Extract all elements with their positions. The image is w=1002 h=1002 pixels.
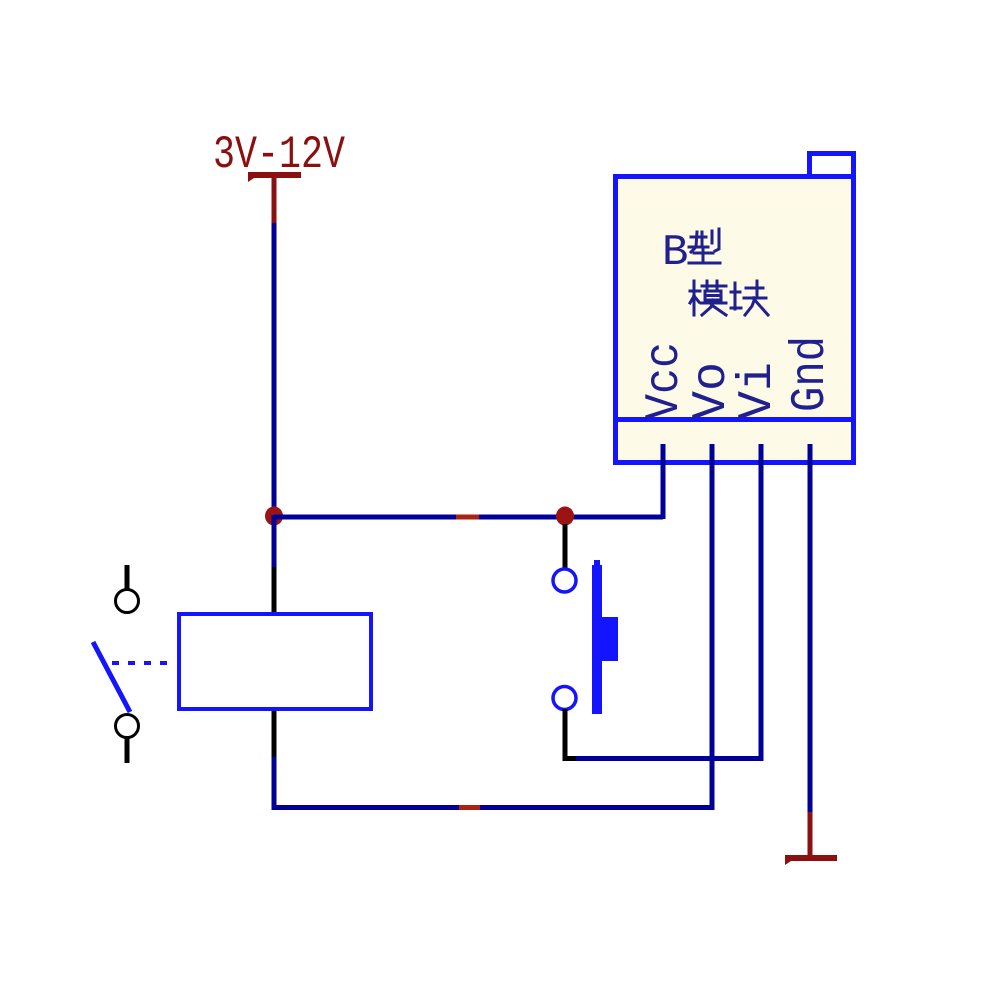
switch mechanical link dashed xyxy=(112,661,176,665)
wire pin Vi lead xyxy=(759,444,764,761)
module label glyph 块 xyxy=(731,281,768,315)
wire button bottom corner black xyxy=(563,756,577,761)
wire J1 to relay black part xyxy=(272,567,277,612)
push button plunger bar xyxy=(592,565,602,714)
switch top terminal circle xyxy=(116,590,139,613)
svg-text:Vi: Vi xyxy=(731,362,785,420)
wire power vertical navy xyxy=(272,223,277,509)
wire pin Vcc lead xyxy=(661,444,666,519)
node junction J1 xyxy=(265,507,283,526)
wire pin Gnd lead red xyxy=(808,812,813,856)
svg-text:Gnd: Gnd xyxy=(784,336,838,412)
wire red mark on Vcc bus xyxy=(456,515,479,520)
push button actuator block xyxy=(597,617,618,661)
svg-text:Vcc: Vcc xyxy=(638,342,692,420)
module pin 1 stub Vcc xyxy=(661,444,666,465)
wire pin Vo lead xyxy=(710,444,715,810)
power rail bar VCC xyxy=(248,172,301,182)
svg-text:B: B xyxy=(662,228,688,278)
wire horizontal Vcc bus xyxy=(274,515,663,520)
ground symbol xyxy=(785,855,837,865)
wire power stub red xyxy=(272,178,277,223)
node junction J2 xyxy=(556,507,574,526)
relay coil box K1 xyxy=(179,614,371,709)
module U1 box xyxy=(616,177,854,463)
switch lever blue xyxy=(93,642,130,712)
module pin 4 stub Gnd xyxy=(808,444,813,465)
module U1 pin separator line xyxy=(613,417,856,422)
switch bottom terminal stub xyxy=(125,738,130,763)
module pin 3 stub Vi xyxy=(759,444,764,465)
wire button to Vi horizontal xyxy=(576,756,763,761)
push button bottom terminal circle xyxy=(553,687,576,710)
wire pin Gnd lead navy xyxy=(808,444,813,812)
module pin 2 stub Vo xyxy=(710,444,715,465)
module label glyph 型 xyxy=(689,229,720,263)
wire J1 to relay navy part xyxy=(272,515,277,567)
wire relay bottom black part xyxy=(272,711,277,757)
push button plunger tip xyxy=(594,560,600,566)
wire button bottom black stub xyxy=(563,709,568,758)
wire J2 to button black stub xyxy=(563,524,568,568)
switch top terminal stub xyxy=(125,565,130,589)
module label glyph 模 xyxy=(690,281,726,315)
push button top terminal circle xyxy=(553,569,576,592)
wire relay bottom navy part xyxy=(272,757,277,810)
wire red mark on bottom wire xyxy=(459,805,480,810)
module U1 notch tab xyxy=(810,154,854,177)
switch bottom terminal circle xyxy=(116,715,139,738)
wire bottom horizontal to Vo xyxy=(272,805,715,810)
